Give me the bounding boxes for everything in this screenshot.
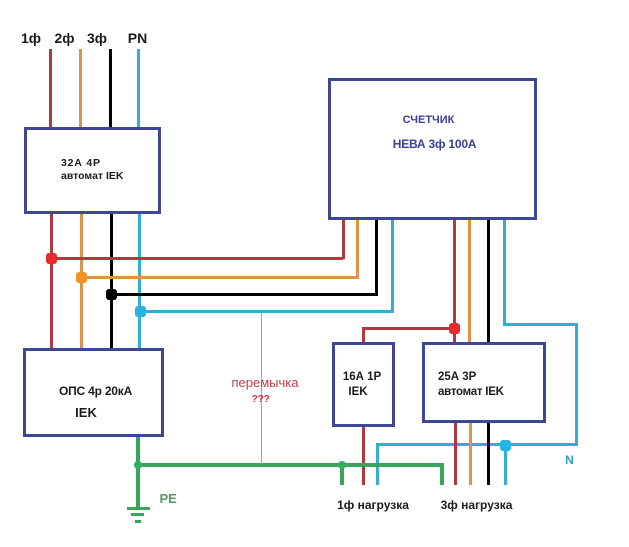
wire red 25A breaker output	[454, 423, 457, 485]
wire black meter output vertical	[487, 220, 490, 342]
breaker QF2 label line2	[348, 386, 367, 398]
SPD F1 OPS box	[23, 348, 164, 437]
wire neutral N from meter down (cyan)	[503, 220, 506, 325]
wire orange 25A breaker output	[469, 423, 472, 485]
wire black branch riser into meter	[375, 220, 378, 296]
label 1ph	[21, 30, 41, 46]
wire neutral N horizontal right (cyan)	[503, 323, 578, 326]
wire black branch horizontal to meter	[112, 293, 378, 296]
wire L1 phase vertical upper (red)	[49, 49, 52, 129]
wire L3 phase vertical upper (black)	[109, 49, 112, 129]
wire red meter output vertical	[453, 220, 456, 342]
label PN	[128, 30, 147, 46]
wire red branch riser into meter	[342, 220, 345, 259]
node junction cyan N	[500, 440, 511, 451]
node junction red meter output	[449, 323, 460, 334]
wire red drop into 16A breaker	[362, 327, 365, 342]
SPD F1 label line1	[59, 384, 132, 398]
breaker QF3 25A 3P box	[422, 342, 547, 424]
wire red branch horizontal to meter	[51, 257, 343, 260]
label 3ph	[87, 30, 107, 46]
breaker QF2 label line1	[343, 371, 381, 383]
node junction cyan	[135, 306, 146, 317]
wire neutral N bottom horizontal (cyan)	[376, 443, 578, 446]
wire orange meter output vertical	[468, 220, 471, 342]
wire PN vertical upper (cyan)	[137, 49, 140, 129]
label jumper question marks	[251, 393, 269, 405]
wire PE vertical from SPD (green)	[136, 436, 140, 507]
label 2ph	[54, 30, 74, 46]
label PE	[160, 491, 177, 506]
wire red 16A breaker output	[362, 426, 365, 485]
breaker QF1 32A 4P box	[24, 127, 161, 214]
node junction green PE	[134, 461, 142, 469]
label jumper note (red)	[232, 375, 299, 390]
wire PN vertical lower (cyan)	[138, 212, 141, 350]
wire L2 phase vertical upper (orange)	[79, 49, 82, 129]
node junction black	[106, 289, 117, 300]
ground PE symbol	[127, 507, 150, 510]
breaker QF3 label line1	[438, 371, 476, 383]
wire orange branch horizontal to meter	[81, 276, 359, 279]
breaker QF3 label line2	[438, 386, 504, 398]
wire black 25A breaker output	[487, 423, 490, 485]
wire PE stub to 1ph load (green)	[340, 463, 344, 485]
meter U1 label line1	[403, 114, 455, 126]
wire L1 phase vertical lower (red)	[50, 212, 53, 350]
wire neutral drop to 3ph load (cyan)	[504, 443, 507, 485]
wire cyan branch horizontal to meter	[140, 310, 395, 313]
wire red jumper horizontal to 16A breaker	[362, 327, 456, 330]
wire neutral N right side vertical (cyan)	[575, 323, 578, 446]
wire cyan branch riser into meter	[391, 220, 394, 313]
wire L3 phase vertical lower (black)	[110, 212, 113, 350]
label 3ph load	[441, 498, 513, 512]
jumper question thin line	[261, 313, 262, 464]
node junction red	[46, 253, 57, 264]
label N	[565, 453, 574, 467]
meter U1 box	[328, 78, 537, 220]
wire neutral drop to 1ph load (cyan)	[376, 443, 379, 485]
wire orange branch riser into meter	[356, 220, 359, 279]
breaker QF2 16A 1P box	[332, 342, 395, 427]
wire L2 phase vertical lower (orange)	[80, 212, 83, 350]
SPD F1 label line2	[75, 405, 97, 420]
node junction orange	[76, 272, 87, 283]
wire PE end drop (green)	[440, 463, 444, 485]
node junction green PE stub	[338, 461, 346, 469]
meter U1 label line2	[393, 137, 477, 151]
label 1ph load	[337, 498, 409, 512]
wire PE bus horizontal (green)	[136, 463, 443, 467]
breaker QF1 label	[61, 157, 123, 184]
